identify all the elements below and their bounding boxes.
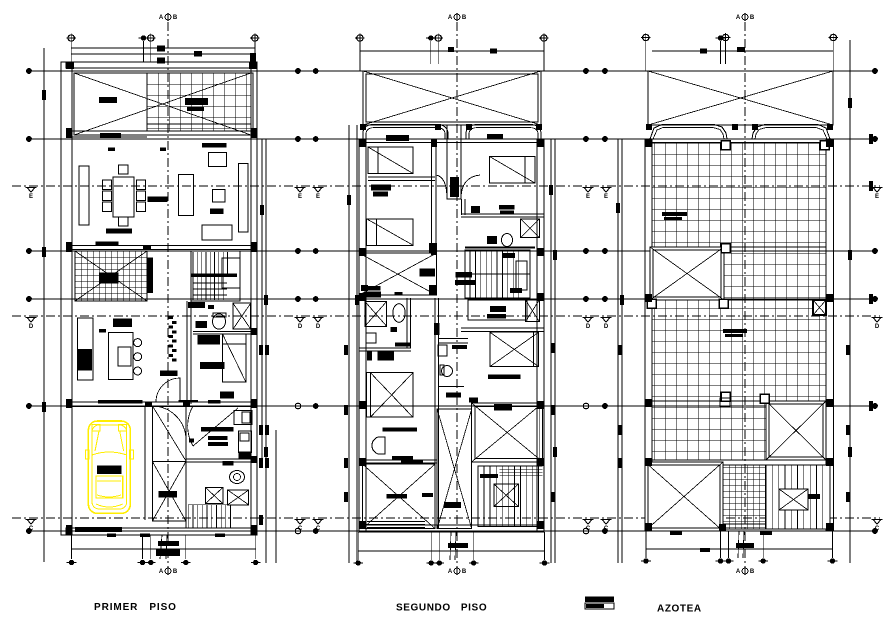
plan2 axis label AB top (448, 13, 467, 21)
plan3 column connector T4 (832, 41, 834, 71)
plan1 bedroom bar 3 (220, 392, 234, 399)
plan2 column circle B5 (540, 560, 550, 565)
plan1 wc xbox 1 (206, 488, 223, 504)
plan1 patio label bar 1 (99, 97, 117, 103)
plan1 column connector B1 (71, 535, 73, 559)
plan3 roof grid B (724, 247, 826, 300)
plan2 roof xbox inner (366, 74, 538, 122)
plan1 tv bar (202, 143, 227, 147)
plan2 column connector T1 (359, 41, 361, 71)
plan3 bottom bars (670, 531, 772, 552)
svg-text:E: E (298, 194, 302, 200)
plan3 left wall (645, 139, 652, 531)
svg-text:C: C (586, 526, 591, 532)
plan2 stairs mid bar (455, 272, 472, 278)
plan2 stairs bottom xbox (494, 484, 518, 506)
plan2 balcony right (466, 125, 541, 140)
plan1 tv unit (209, 153, 227, 167)
plan1 column circle T4 (250, 33, 259, 42)
grid line y71 (29, 70, 875, 72)
svg-text:D: D (875, 324, 880, 330)
grid line dots y406 (26, 403, 878, 409)
plan2 column connector T2 (430, 41, 432, 64)
plan3 xbox bottomleft (645, 462, 723, 531)
plan1 patio wall bottom (66, 124, 251, 137)
plan1 utility door arc (188, 406, 193, 446)
svg-text:SEGUNDO PISO: SEGUNDO PISO (396, 603, 487, 614)
plan1 column connector T2 (143, 41, 145, 62)
plan2 top tick (448, 47, 497, 54)
plan3 top property line (652, 50, 833, 52)
plan2 bed5 (490, 332, 539, 366)
plan1 wc toilet (230, 471, 245, 484)
plan2 bath2 fixtures (434, 323, 468, 398)
plan1 garage bay diagonal (153, 406, 187, 461)
plan1 patio border (74, 73, 253, 135)
plan1 bay bar (159, 491, 178, 497)
plan1 column circle B4 (181, 560, 191, 565)
plan3 balcony columns (646, 124, 833, 130)
plan2 balcony bar left (386, 135, 409, 141)
plan3 bottom property line (646, 548, 832, 550)
plan1 bottom bar long (75, 527, 122, 532)
plan1 column circle B1 (67, 560, 77, 565)
plan1 column circle B5 (251, 560, 261, 565)
plan2 minibath bar (378, 352, 395, 361)
plan3 column circle T3 (721, 33, 730, 42)
plan1 bath xbox (233, 303, 251, 329)
plan1 kitchen tick (99, 329, 106, 333)
plan1 utility bars (189, 427, 234, 466)
plan2 xroom left (359, 253, 437, 295)
plan3 bottom centre bars (736, 531, 754, 558)
plan1 column connector T3 (150, 41, 152, 62)
plan1 kitchen island (108, 333, 133, 380)
plan2 wc toilet bl (393, 304, 405, 323)
svg-text:AZOTEA: AZOTEA (657, 604, 702, 615)
svg-text:A: A (448, 15, 453, 21)
plan2 balcony left (363, 125, 448, 140)
plan3 column connector T3 (725, 41, 727, 64)
plan3 roof xbox (648, 71, 833, 125)
plan2 bath1 sink (487, 236, 497, 244)
plan1 column connector T4 (254, 41, 256, 62)
plan2 bath1 toilet (502, 234, 513, 247)
plan1 bed (222, 334, 246, 382)
plan1 bottom centre lines (160, 535, 167, 559)
plan2 column circle B4 (469, 560, 479, 565)
svg-text:A: A (159, 15, 164, 21)
axis E markers (26, 188, 883, 201)
plan3 parapet right (752, 125, 830, 140)
plan2 column circle B2 (426, 560, 436, 565)
plan2 xroom bar 3 (395, 292, 403, 295)
plan1 utility cabinet (234, 410, 252, 424)
svg-text:E: E (316, 194, 320, 200)
plan3 column connector T1 (645, 41, 647, 71)
plan3 void xbox (650, 247, 724, 300)
svg-text:C: C (875, 526, 880, 532)
plan2 xbox tall centre (437, 409, 472, 529)
plan1 wall y461 (186, 459, 251, 462)
svg-text:D: D (586, 324, 591, 330)
grid line dots y531 (26, 528, 878, 534)
plan2 hall tick (471, 206, 480, 213)
svg-text:B: B (750, 15, 755, 21)
plan1 bay xbox (153, 462, 186, 521)
svg-text:C: C (316, 526, 321, 532)
plan2 xbox bl bar2 (422, 493, 433, 497)
plan1 bottom wall (66, 528, 257, 535)
plan1 top wall (66, 62, 257, 68)
plan2 column connector T4 (543, 41, 545, 71)
plan3 column stubs (647, 141, 829, 404)
plan1 dining chairs (102, 165, 145, 226)
plan2 stairs mid bar2 (455, 280, 475, 285)
plan3 roof grid C (652, 300, 826, 401)
plan1 dining table (113, 177, 134, 217)
plan2 column connector B2 (430, 532, 432, 560)
plan1 column connector B3 (150, 535, 152, 559)
plan3 column circle B1 (641, 558, 651, 563)
plan3 parapet left (650, 125, 727, 140)
svg-text:C: C (604, 526, 609, 532)
plan2 wall y296 bar (364, 292, 381, 298)
plan2 bed3 right (490, 157, 535, 184)
axis C markers (26, 520, 883, 533)
plan2 bed4 bar2 (392, 456, 413, 460)
plan2 bed4 (366, 373, 413, 418)
plan2 wall y330 right (461, 328, 544, 332)
axis D markers (26, 318, 883, 331)
plan1 wall tick a (108, 148, 115, 152)
plan1 pergola grid (147, 73, 251, 131)
plan3 top tick (737, 47, 745, 52)
plan1 coffee table (213, 190, 225, 202)
plan2 desk wall (368, 177, 435, 181)
plan2 stairs bottom bar (480, 474, 498, 478)
plan3 column connector B5 (831, 531, 833, 558)
plan1 stair hatch blob (100, 273, 119, 284)
plan2 bed2 (367, 219, 414, 246)
plan1 wall tick b (160, 148, 166, 152)
svg-text:D: D (604, 324, 609, 330)
svg-text:B: B (462, 15, 467, 21)
axis D dashdot (12, 315, 880, 317)
plan2 hall right wall (462, 199, 466, 215)
plan1 utility door leaf (193, 408, 238, 446)
plan1 wall y404 (66, 402, 257, 406)
plan3 window square (720, 398, 730, 407)
plan2 bed4 bar3 (401, 461, 423, 464)
plan2 bed5 bar2 (469, 397, 478, 402)
plan1 column circle T3 (146, 33, 155, 42)
svg-text:E: E (875, 194, 879, 200)
plan3 axis label AB bottom (736, 567, 755, 575)
svg-text:B: B (462, 569, 467, 575)
plan2 wall chunk 1 (429, 243, 437, 253)
plan2 stairs ticks (503, 253, 522, 293)
plan3 column circle T4 (829, 33, 838, 42)
grid line y251 (29, 250, 875, 252)
plan2 bed4 bar (383, 427, 418, 431)
plan1 wall y247 (66, 246, 257, 250)
plan1 label bar y243 (96, 241, 119, 245)
plan2 wall y141 (359, 139, 544, 143)
plan3 centre axis (744, 22, 746, 575)
plan1 column connector B2 (142, 535, 144, 559)
plan1 right wall (251, 62, 257, 535)
svg-text:A: A (736, 15, 741, 21)
plan1 column connector B5 (255, 535, 257, 559)
plan2 wall y215 right (461, 214, 544, 217)
plan1 garage bay arc (153, 406, 187, 440)
plan2 xbox right big (472, 403, 543, 462)
plan2 xroom bar 1 (420, 269, 436, 277)
plan1 bedroom bar 1 (198, 335, 220, 344)
plan2 xroom bar 2 (365, 286, 381, 291)
plan1 stair hatch brace (75, 251, 147, 301)
plan2 xbox bl bar (387, 494, 407, 498)
plan2 balcony columns (360, 124, 542, 130)
plan1 wall y404 bar 2 (178, 400, 198, 403)
plan2 column connector B3 (438, 532, 440, 560)
plan2 column circle T4 (539, 33, 548, 42)
plan1 wall y404 bar 1 (98, 400, 142, 404)
plan3 column circle B2 (716, 558, 726, 563)
plan2 hall arches (436, 175, 480, 199)
plan2 wc xbox bl (365, 301, 387, 326)
plan2 column connector B4 (473, 532, 475, 560)
plan3 stairs tick (808, 494, 820, 499)
plan1 column circle T1 (67, 33, 76, 42)
plan2 roof xbox (363, 71, 541, 125)
plan3 stairs xbox (779, 489, 808, 510)
plan3 column connector B4 (762, 531, 764, 558)
grid line dots y71 (26, 68, 878, 74)
plan1 top ticks (157, 46, 256, 64)
plan3 void tick (682, 49, 707, 261)
left boundary line (43, 48, 45, 562)
legend symbol (585, 597, 614, 610)
plan1 wc xbox 2 (228, 490, 249, 505)
plan1 left wall (61, 62, 72, 535)
plan1 left closet (79, 166, 89, 225)
plan1 bath wall bar (188, 302, 205, 308)
plan1 patio label bar 4 (100, 133, 121, 138)
plan1 bottom property line (71, 548, 256, 550)
plan2 xbox right big inner (475, 407, 539, 459)
plan3 stairs right (766, 465, 830, 529)
plan2 axis label AB bottom (448, 567, 467, 575)
plan1 kitchen island inner (118, 347, 131, 366)
plan2 balcony bar right (487, 134, 503, 139)
plan1 column blocks (66, 62, 257, 535)
plan2 dresser bars (371, 185, 391, 197)
plan1 column circle T2 (139, 35, 149, 40)
axis E dashdot (12, 185, 880, 187)
plan1 column circle B3 (146, 560, 156, 565)
plan1 garage wall right (145, 406, 152, 520)
plan2 column circle B3 (434, 560, 444, 565)
svg-text:A: A (736, 569, 741, 575)
grid line dots y251 (26, 248, 878, 254)
plan2 minibath sink (366, 333, 376, 343)
grid line y406 (29, 405, 875, 407)
plan2 right boundary pair (551, 139, 555, 563)
svg-text:A: A (159, 569, 164, 575)
plan3 label bars 2 (723, 329, 747, 337)
plan3 roof grid A (652, 143, 826, 248)
plan3 right wall (826, 139, 834, 531)
svg-text:B: B (750, 569, 755, 575)
plan2 stairs mid (465, 248, 535, 299)
plan2 bed3 bars (499, 205, 515, 214)
plan1 garage stairs (188, 505, 230, 528)
svg-text:D: D (29, 324, 34, 330)
plan2 bath1 xbox (521, 219, 540, 238)
plan1 kitchen stools (134, 339, 142, 375)
plan1 kitchen counter left (78, 318, 93, 380)
grid line y139 (29, 138, 875, 140)
plan2 partition x437 low (435, 298, 438, 529)
plan3 label bars 1 (662, 212, 687, 220)
plan2 left wall (359, 139, 366, 532)
plan3 roof grid D (652, 401, 766, 460)
plan1 rug bar (210, 209, 224, 215)
plan3 bottom wall (645, 524, 834, 531)
plan2 bottom property line (358, 550, 545, 552)
plan2 left boundary pair (349, 125, 357, 563)
plan1 column connector T1 (70, 41, 72, 62)
plan1 washer (238, 431, 251, 459)
plan3 column connector T2 (720, 41, 722, 64)
plan3 column connector B2 (720, 531, 722, 558)
plan2 wall chunk 2 (429, 285, 437, 295)
svg-text:D: D (316, 324, 321, 330)
plan1 column circle B2 (138, 560, 148, 565)
plan1 wall x186 (185, 406, 187, 528)
plan3 stairs grid centre (723, 465, 766, 529)
plan1 bath wall (187, 301, 191, 404)
plan1 wall y404 bar 3 (208, 400, 220, 404)
plan2 bottom wall (359, 525, 544, 532)
plan2 bed5 desk bar (488, 375, 520, 379)
plan2 xbox bottomleft (362, 464, 435, 529)
grid line y531 (29, 530, 875, 532)
plan2 bottom centre bars (448, 532, 468, 560)
plan2 column circle T2 (426, 35, 436, 40)
plan2 column circle B1 (353, 560, 363, 565)
plan1 stair hatch bar (147, 258, 153, 294)
plan1 patio label bar 3 (187, 107, 204, 111)
plan2 bench right (468, 300, 527, 320)
grid line dots y299 (26, 296, 878, 302)
plan2 column connector B1 (357, 532, 359, 560)
plan1 top property lines (71, 48, 255, 54)
plan1 bath sink (195, 321, 207, 328)
plan1 bath wall bar2 (208, 305, 214, 309)
svg-text:E: E (29, 194, 33, 200)
plan1 patio brace (74, 73, 251, 135)
plan1 right closet (239, 164, 249, 232)
plan2 minibath bar b (395, 343, 411, 347)
plan2 xbox br small (525, 300, 539, 322)
plan1 bath wall y332 (193, 332, 251, 334)
plan1 centre axis (167, 22, 169, 575)
plan3 column connector B1 (645, 531, 647, 558)
plan2 column connector B5 (544, 532, 546, 560)
plan1 axis label AB bottom (159, 567, 178, 575)
plan3 left boundary pair (618, 139, 622, 563)
plan2 stairs bottom (478, 466, 543, 527)
plan2 bed4 lamp (372, 437, 385, 454)
plan2 bed1 (368, 147, 413, 174)
boundary tick marks (42, 90, 873, 525)
plan2 minibath black sq (391, 327, 398, 332)
plan2 top property line (360, 50, 544, 52)
plan1 bottom bars (107, 534, 225, 538)
plan1 bath toilet (213, 314, 226, 329)
plan1 hall bar (160, 370, 178, 376)
plan2 xbox tall bar (444, 502, 461, 508)
plan3 axis label AB top (736, 13, 755, 21)
grid line y299 (29, 298, 875, 300)
plan2 centre stub wall (447, 125, 461, 199)
svg-text:C: C (29, 526, 34, 532)
svg-text:D: D (298, 324, 303, 330)
svg-text:B: B (173, 569, 178, 575)
plan3 column circle B3 (724, 558, 734, 563)
plan2 partition x433 (432, 139, 437, 253)
plan1 patio label bar 2 (185, 98, 208, 105)
plan2 minibath walls (359, 298, 411, 351)
grid line dots y139 (26, 136, 878, 142)
plan3 column circle T2 (716, 35, 726, 40)
svg-text:E: E (604, 194, 608, 200)
plan2 column blocks (359, 139, 544, 529)
plan1 column connector B4 (185, 535, 187, 559)
plan2 wall y461 left (359, 460, 437, 463)
svg-text:C: C (298, 526, 303, 532)
plan3 column connector B3 (728, 531, 730, 558)
plan1 stair hatch (75, 251, 147, 301)
plan1 stove black (78, 349, 92, 370)
plan3 column blocks (645, 139, 833, 531)
plan3 small xbox (813, 300, 826, 315)
plan2 xbox bl hatch (367, 522, 425, 528)
axis C dashdot (12, 517, 880, 519)
plan1 kitchen door arc (156, 378, 180, 402)
svg-text:B: B (173, 15, 178, 21)
plan1 rug bar (106, 229, 132, 234)
plan3 column circle T1 (641, 33, 650, 42)
svg-text:A: A (448, 569, 453, 575)
plan1 car (85, 421, 133, 513)
plan1 bedroom bar 2 (200, 362, 225, 369)
plan2 xbox right big bar (494, 404, 512, 411)
plan2 minibath wall chunk (367, 352, 372, 361)
plan2 column circle T1 (355, 33, 364, 42)
right boundary line (849, 40, 851, 563)
plan2 column connector T3 (437, 41, 439, 64)
svg-text:PRIMER PISO: PRIMER PISO (94, 602, 177, 613)
plan1 axis label AB top (159, 13, 178, 21)
plan2 right wall (537, 139, 544, 532)
plan2 centre axis (456, 22, 458, 575)
plan3 wall y141 (645, 139, 834, 143)
plan2 column circle T3 (434, 33, 443, 42)
